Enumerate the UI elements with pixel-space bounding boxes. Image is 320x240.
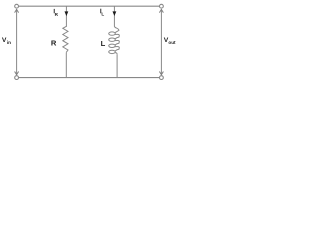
terminal circle top-right — [160, 4, 164, 8]
bottom wire — [19, 77, 160, 79]
V_in arrowhead down — [15, 72, 19, 75]
V_out arrowhead up — [159, 9, 163, 12]
current arrow I_R — [65, 11, 69, 16]
terminal circle top-left — [15, 4, 19, 8]
terminal circle bottom-left — [15, 76, 19, 80]
svg-text:out: out — [168, 40, 176, 45]
label I_L — [99, 9, 102, 14]
V_in voltage arrow line — [16, 9, 18, 75]
svg-text:R: R — [55, 12, 59, 17]
V_out arrowhead down — [159, 72, 163, 75]
svg-text:L: L — [101, 12, 104, 17]
wire R branch bottom stub — [65, 52, 67, 77]
wire L branch top stub — [113, 6, 115, 26]
V_in arrowhead up — [15, 9, 19, 12]
top wire — [19, 5, 160, 7]
wire L branch bottom stub — [116, 55, 118, 78]
inductor L coil — [114, 26, 119, 55]
svg-text:R: R — [51, 39, 57, 48]
svg-text:in: in — [7, 40, 11, 45]
svg-text:L: L — [101, 39, 106, 48]
wire R branch top stub — [65, 6, 67, 27]
label I_R — [53, 9, 56, 13]
current arrow I_L — [113, 11, 117, 16]
terminal circle bottom-right — [160, 76, 164, 80]
resistor R zigzag — [63, 26, 68, 52]
V_out voltage arrow line — [160, 9, 162, 75]
